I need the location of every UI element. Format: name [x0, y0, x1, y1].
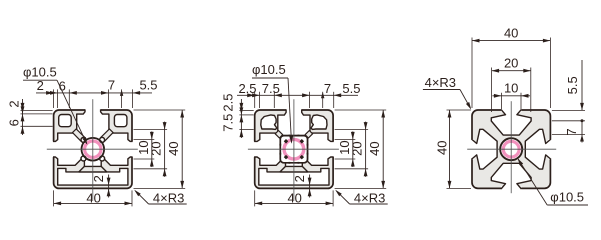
svg-text:5.5: 5.5	[342, 81, 360, 96]
svg-text:2.5: 2.5	[238, 81, 256, 96]
svg-text:2.5: 2.5	[221, 94, 236, 112]
svg-text:φ10.5: φ10.5	[252, 62, 286, 77]
svg-text:4×R3: 4×R3	[354, 190, 385, 205]
svg-text:5.5: 5.5	[565, 76, 580, 94]
svg-text:40: 40	[504, 25, 518, 40]
svg-text:φ10.5: φ10.5	[23, 64, 57, 79]
svg-text:4×R3: 4×R3	[425, 75, 456, 90]
svg-text:2: 2	[91, 175, 106, 182]
svg-text:20: 20	[350, 141, 365, 155]
svg-text:7.5: 7.5	[221, 114, 236, 132]
svg-text:7: 7	[564, 128, 579, 135]
svg-text:40: 40	[166, 141, 181, 155]
svg-text:10: 10	[504, 81, 518, 96]
svg-text:5.5: 5.5	[139, 78, 157, 93]
svg-text:7.5: 7.5	[262, 81, 280, 96]
svg-text:2: 2	[292, 175, 307, 182]
svg-text:20: 20	[149, 141, 164, 155]
svg-text:40: 40	[367, 141, 382, 155]
svg-text:2: 2	[7, 100, 22, 107]
svg-text:40: 40	[86, 190, 100, 205]
svg-text:7: 7	[108, 78, 115, 93]
svg-text:4×R3: 4×R3	[153, 190, 184, 205]
svg-text:6: 6	[7, 119, 22, 126]
svg-text:20: 20	[504, 56, 518, 71]
svg-text:40: 40	[287, 190, 301, 205]
svg-text:φ10.5: φ10.5	[550, 190, 584, 205]
svg-text:7: 7	[324, 81, 331, 96]
svg-text:40: 40	[434, 141, 449, 155]
